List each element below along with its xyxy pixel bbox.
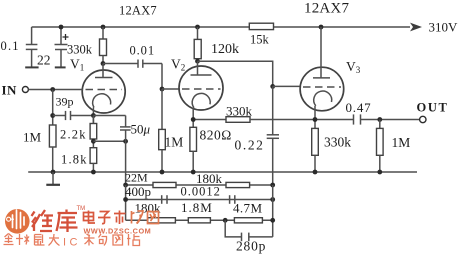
junction bus 1M output [377, 170, 382, 175]
svg-text:120k: 120k [211, 42, 239, 57]
capacitor 0.01 [103, 60, 162, 90]
junction row2 right [270, 197, 275, 202]
watermark logo [5, 207, 30, 233]
junction V1 anode [101, 61, 106, 66]
svg-text:15k: 15k [250, 33, 270, 47]
capacitor 50u [120, 116, 131, 186]
capacitor 400p [162, 195, 167, 204]
junction rail-330k [101, 25, 106, 30]
feedback row2 wire [126, 199, 273, 201]
svg-text:22: 22 [37, 53, 51, 68]
V2 grid (dashed) [182, 88, 221, 90]
junction rail-120k [195, 25, 200, 30]
resistor 330k (V1 anode) [100, 27, 107, 64]
wire IN to V1 grid [28, 89, 83, 91]
watermark slogan zui [35, 235, 45, 246]
junction V2 grid [160, 87, 165, 92]
svg-text:330k: 330k [226, 104, 253, 119]
svg-text:1.8M: 1.8M [181, 200, 213, 215]
junction 2.2k/1.8k [91, 139, 96, 144]
junction V2 cathode [191, 117, 196, 122]
watermark slogan da [49, 234, 60, 246]
svg-text:280p: 280p [236, 239, 266, 254]
svg-text:0.22: 0.22 [235, 138, 265, 153]
capacitor 280p [225, 220, 273, 241]
resistor 15k [249, 23, 273, 29]
tube V3 [300, 67, 344, 111]
junction bus 1.8k [91, 170, 96, 175]
capacitor 22 electrolytic [55, 27, 69, 67]
feedback row3 wire [126, 219, 273, 221]
resistor 1M (V2 grid) [159, 89, 166, 172]
V1 grid (dashed) [86, 89, 123, 91]
tube V2 [179, 66, 223, 110]
wire IN node down [52, 90, 54, 126]
V1 anode plate [95, 64, 113, 78]
junction bus 330k V3 [313, 170, 318, 175]
resistor 330k (horizontal) [226, 117, 250, 123]
resistor 1M (output) [377, 120, 384, 173]
watermark text wang [148, 212, 159, 224]
ground symbol [46, 172, 60, 185]
watermark slogan zhan [127, 234, 140, 246]
svg-text:1M: 1M [392, 135, 411, 150]
wire cathode output line [193, 119, 226, 121]
watermark slogan wang2 [113, 235, 123, 245]
svg-text:1M: 1M [165, 135, 184, 150]
wire V3 grid column down [272, 86, 274, 134]
svg-text:4.7M: 4.7M [233, 201, 262, 216]
junction 39p left [50, 113, 55, 118]
svg-text:50μ: 50μ [131, 122, 151, 137]
node 310V arrow [410, 23, 422, 32]
resistor 1M (input) [49, 125, 56, 172]
junction IN node [50, 87, 55, 92]
resistor 180k (row3) [148, 218, 176, 223]
svg-text:12AX7: 12AX7 [304, 1, 349, 17]
svg-text:IC: IC [63, 237, 81, 249]
V2 cathode [192, 93, 210, 107]
svg-text:39p: 39p [56, 95, 74, 109]
capacitor 0.47 [354, 114, 420, 124]
V2 anode plate [191, 61, 212, 75]
V1 cathode [93, 94, 111, 108]
watermark text weiku char1 [32, 210, 54, 231]
junction row1 left [123, 183, 128, 188]
resistor 22M [153, 182, 176, 187]
resistor 1.8M [188, 218, 210, 223]
svg-text:22M: 22M [125, 171, 148, 185]
junction rail-22cap [59, 25, 64, 30]
wire V3 grid [273, 85, 301, 87]
svg-text:0.01: 0.01 [130, 44, 155, 58]
junction 39p right / V1 cathode [91, 113, 96, 118]
wire 330k to 0.47 [250, 119, 354, 121]
svg-text:TM: TM [77, 206, 86, 212]
junction rail-V3 anode [319, 25, 324, 30]
junction row3 280p [223, 218, 228, 223]
resistor 120k [194, 27, 201, 61]
wire V1 cathode to 50u [93, 115, 125, 117]
junction output 1M [377, 117, 382, 122]
svg-text:IN: IN [2, 83, 18, 98]
V3 grid (dashed) [303, 86, 341, 88]
capacitor 0.0012 [230, 195, 235, 204]
junction V3 grid [270, 84, 275, 89]
wire ground bus [28, 171, 417, 173]
wire V2 anode to V3 grid column [198, 61, 273, 86]
wire V2 grid [162, 88, 180, 90]
terminal IN [22, 87, 28, 93]
wire row2-row3 right column [272, 185, 274, 237]
svg-text:330k: 330k [324, 135, 351, 150]
watermark text chang [132, 211, 144, 224]
svg-text:310V: 310V [429, 20, 459, 35]
watermark text dian [84, 211, 96, 224]
svg-text:330k: 330k [67, 43, 93, 57]
terminal OUT [420, 116, 426, 122]
junction 50u line [123, 139, 128, 144]
watermark text shi [114, 211, 126, 225]
resistor 180k (row1) [226, 182, 250, 187]
resistor 820R [190, 127, 197, 172]
capacitor 0.1 [26, 27, 38, 67]
svg-text:400p: 400p [125, 184, 151, 199]
svg-text:12AX7: 12AX7 [119, 4, 157, 18]
svg-text:1M: 1M [23, 130, 42, 145]
feedback row1 wire [126, 184, 273, 186]
junction row3 right [270, 218, 275, 223]
watermark text weiku char2 [57, 210, 78, 233]
junction bus 1M input [51, 170, 56, 175]
watermark slogan cai [84, 234, 95, 246]
svg-text:0.0012: 0.0012 [181, 185, 221, 199]
ground (22 cap) [55, 66, 66, 68]
resistor 2.2k [90, 116, 97, 148]
watermark slogan qiu [16, 234, 29, 245]
svg-text:2.2k: 2.2k [60, 128, 87, 142]
junction V2 anode [195, 59, 200, 64]
junction row1 right [270, 183, 275, 188]
svg-text:0.1: 0.1 [1, 39, 20, 53]
svg-text:OUT: OUT [417, 101, 449, 115]
resistor 4.7M [234, 218, 262, 223]
resistor 1.8k [90, 148, 97, 172]
junction row2 left [123, 197, 128, 202]
junction bus 820R [191, 170, 196, 175]
svg-text:820Ω: 820Ω [200, 128, 232, 143]
watermark slogan quan [4, 234, 14, 245]
capacitor 0.22 [267, 135, 279, 185]
watermark slogan gou [99, 234, 107, 246]
wire top B+ rail [32, 26, 410, 28]
junction bus 1M V2 [160, 170, 165, 175]
svg-text:0.47: 0.47 [346, 100, 372, 115]
wire row1-row2 left column [125, 185, 127, 220]
junction V3 cathode [313, 117, 318, 122]
svg-text:WWW.DZSC.COM: WWW.DZSC.COM [84, 227, 152, 236]
tube V1 [82, 70, 125, 113]
capacitor 39p [53, 111, 94, 120]
watermark text zi [98, 212, 111, 224]
wire 2.2k node to 50u line [93, 140, 125, 142]
svg-text:1.8k: 1.8k [61, 153, 88, 167]
V3 anode plate [313, 27, 330, 78]
ground (0.1 cap) [25, 66, 38, 68]
V3 cathode [314, 91, 332, 106]
resistor 330k (V3 cathode) [312, 128, 319, 172]
